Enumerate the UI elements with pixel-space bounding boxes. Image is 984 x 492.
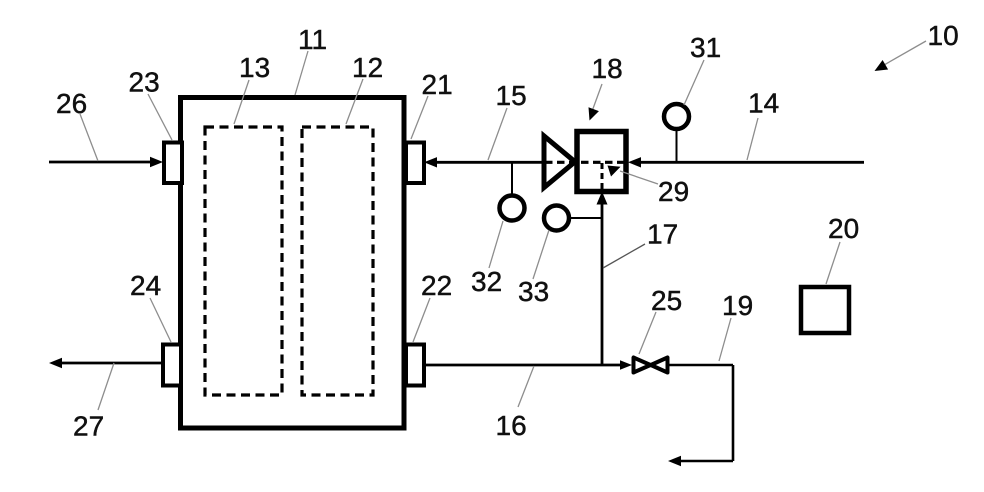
svg-text:19: 19 (722, 290, 753, 321)
svg-text:11: 11 (298, 24, 327, 55)
svg-text:31: 31 (690, 32, 721, 63)
svg-text:25: 25 (651, 285, 682, 316)
check valve 18 triangle (544, 136, 575, 188)
adsorbent bed 13 (dashed) (205, 127, 282, 395)
svg-text:21: 21 (422, 69, 453, 100)
leader 22 (413, 298, 430, 342)
port 22 (406, 345, 424, 386)
svg-text:14: 14 (748, 88, 779, 119)
port 24 (163, 345, 181, 386)
leader 15 (488, 108, 507, 160)
valve 25 right triangle (651, 358, 668, 373)
sensor circle 32 (500, 196, 525, 221)
line 19 return (680, 460, 733, 463)
sensor circle 31 (664, 104, 689, 129)
svg-text:24: 24 (130, 270, 161, 301)
leader 13 (234, 80, 249, 124)
line 16 (424, 364, 628, 367)
svg-text:20: 20 (828, 213, 859, 244)
arrowhead line 19 (668, 456, 681, 466)
svg-text:23: 23 (129, 67, 160, 98)
svg-text:26: 26 (56, 88, 87, 119)
port 23 (164, 143, 182, 184)
svg-text:27: 27 (73, 411, 104, 442)
outlet line 27 (60, 362, 162, 365)
leader 10 (884, 41, 926, 65)
arrowhead line 27 (49, 358, 62, 368)
arrowhead on line 16 before valve 25 (620, 360, 632, 370)
svg-text:16: 16 (496, 410, 527, 441)
dashed centerline through valve (545, 161, 626, 164)
leader 17 (603, 244, 645, 268)
inlet line 26 (49, 161, 152, 164)
arrowhead line 17 up into valve body (597, 192, 608, 205)
svg-text:29: 29 (658, 176, 689, 207)
arrowhead line 26 (150, 157, 163, 167)
leader 26 (80, 114, 98, 161)
stem of sensor 33 (569, 217, 602, 219)
svg-text:15: 15 (496, 80, 527, 111)
line 15 (436, 161, 542, 164)
leader 24 (150, 298, 171, 342)
pilot line 17 (601, 203, 604, 365)
arrowhead line 15 into port 21 (424, 157, 437, 167)
leader 12 (346, 79, 363, 124)
leader 16 (518, 366, 534, 407)
stem of sensor 32 (511, 163, 513, 196)
svg-text:32: 32 (471, 266, 502, 297)
leader 32 (489, 221, 503, 268)
leader 33 (533, 230, 549, 279)
leader 25 (639, 312, 656, 354)
arrowhead leader 29 (608, 166, 621, 177)
leader 23 (148, 94, 172, 140)
valve body box 18/29 (577, 132, 626, 192)
arrowhead leader 10 (875, 60, 889, 71)
leader 11 (295, 51, 308, 95)
leader 21 (411, 96, 428, 139)
valve 25 left triangle (634, 358, 651, 373)
leader 19 (719, 318, 731, 361)
svg-text:33: 33 (518, 276, 549, 307)
leader 18 (593, 84, 603, 110)
vessel 11 (181, 98, 405, 429)
svg-text:18: 18 (592, 53, 623, 84)
line 19 horizontal (670, 364, 734, 367)
leader 14 (747, 118, 758, 160)
line 14 (639, 161, 864, 164)
leader 20 (826, 242, 840, 284)
leader 31 (684, 60, 704, 105)
sensor circle 33 (544, 206, 569, 231)
arrowhead line 14 into valve body (628, 157, 641, 167)
leader 29 (620, 171, 658, 184)
line 19 vertical (732, 365, 735, 461)
leader 27 (98, 363, 114, 410)
svg-text:22: 22 (421, 270, 452, 301)
svg-text:13: 13 (239, 52, 270, 83)
svg-text:12: 12 (352, 52, 383, 83)
svg-text:17: 17 (647, 219, 678, 250)
svg-text:10: 10 (928, 20, 959, 51)
controller box 20 (801, 287, 849, 333)
port 21 (406, 143, 424, 184)
stem of sensor 31 (676, 129, 678, 161)
dashed stem inside valve body (601, 163, 604, 190)
arrowhead leader 18 (589, 107, 599, 120)
adsorbent bed 12 (dashed) (302, 127, 373, 395)
